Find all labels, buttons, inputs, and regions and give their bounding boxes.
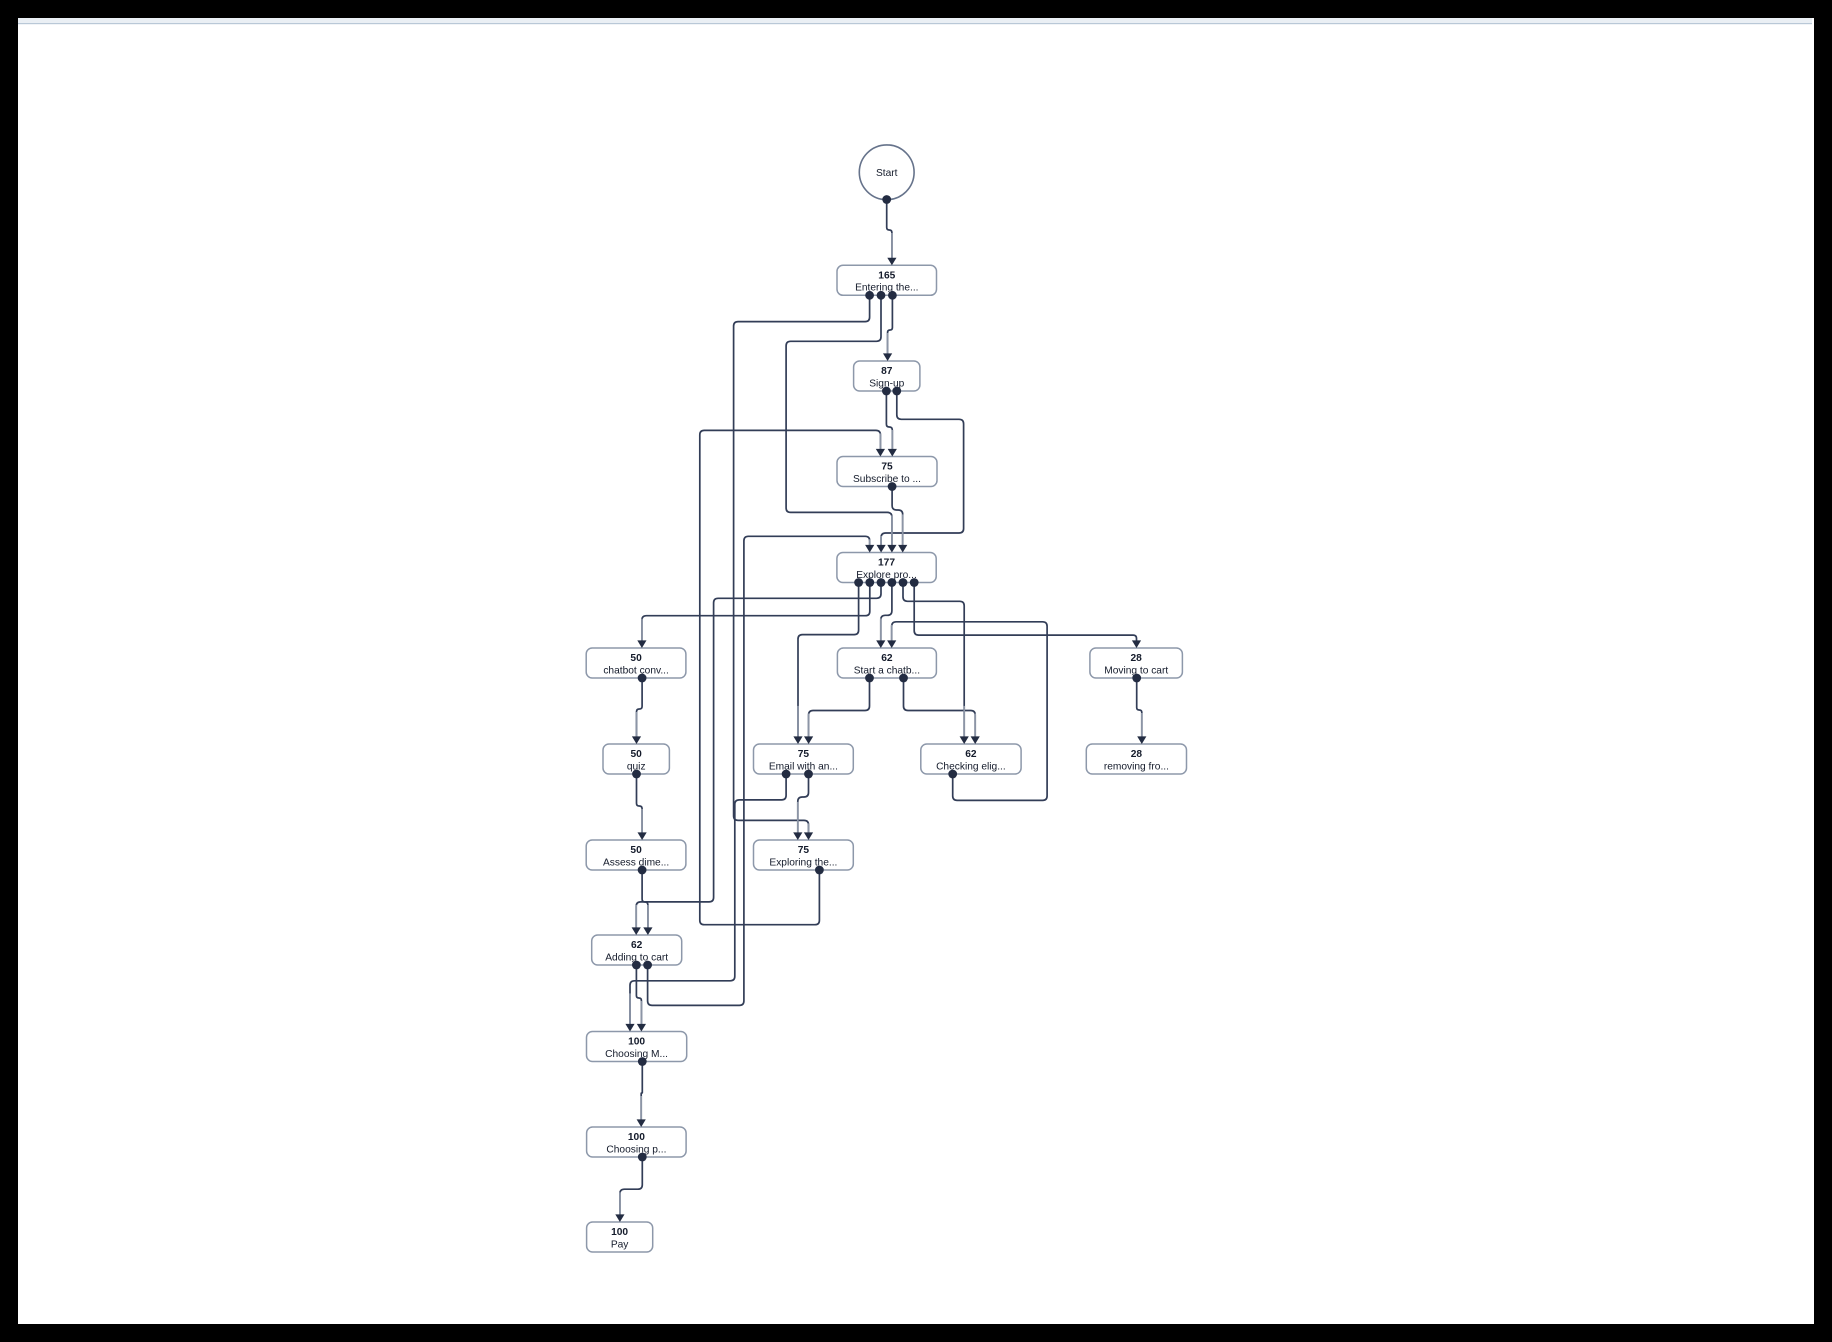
svg-text:100: 100 bbox=[628, 1037, 645, 1048]
svg-text:Subscribe to ...: Subscribe to ... bbox=[853, 474, 921, 485]
svg-text:87: 87 bbox=[881, 366, 893, 377]
svg-text:62: 62 bbox=[965, 749, 977, 760]
svg-text:Assess dime...: Assess dime... bbox=[603, 857, 669, 868]
svg-text:75: 75 bbox=[881, 462, 893, 473]
svg-text:62: 62 bbox=[631, 940, 643, 951]
svg-text:Email with an...: Email with an... bbox=[769, 761, 838, 772]
svg-text:removing fro...: removing fro... bbox=[1104, 761, 1169, 772]
svg-text:28: 28 bbox=[1131, 653, 1143, 664]
svg-text:100: 100 bbox=[611, 1227, 628, 1238]
svg-text:165: 165 bbox=[878, 270, 895, 281]
svg-text:177: 177 bbox=[878, 558, 895, 569]
svg-text:Choosing M...: Choosing M... bbox=[605, 1049, 668, 1060]
svg-text:Entering the...: Entering the... bbox=[855, 283, 918, 294]
svg-text:62: 62 bbox=[881, 653, 893, 664]
svg-text:Checking elig...: Checking elig... bbox=[936, 761, 1006, 772]
svg-text:Start a chatb...: Start a chatb... bbox=[854, 665, 920, 676]
svg-text:Choosing p...: Choosing p... bbox=[606, 1144, 666, 1155]
svg-text:50: 50 bbox=[630, 845, 642, 856]
svg-text:Pay: Pay bbox=[611, 1239, 629, 1250]
svg-text:50: 50 bbox=[631, 749, 643, 760]
svg-text:100: 100 bbox=[628, 1132, 645, 1143]
svg-text:Start: Start bbox=[876, 168, 898, 179]
svg-text:Exploring the...: Exploring the... bbox=[769, 857, 837, 868]
svg-text:75: 75 bbox=[798, 845, 810, 856]
svg-text:75: 75 bbox=[798, 749, 810, 760]
svg-text:50: 50 bbox=[630, 653, 642, 664]
svg-text:Explore pro...: Explore pro... bbox=[856, 570, 917, 581]
svg-text:28: 28 bbox=[1131, 749, 1143, 760]
svg-text:chatbot conv...: chatbot conv... bbox=[603, 665, 669, 676]
